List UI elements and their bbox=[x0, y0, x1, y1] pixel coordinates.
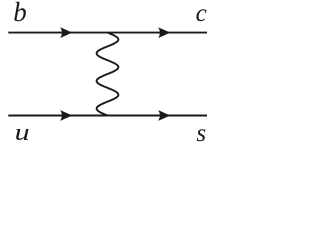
svg-text:b: b bbox=[13, 0, 27, 27]
svg-text:c: c bbox=[196, 0, 207, 27]
svg-text:u: u bbox=[15, 120, 30, 146]
svg-text:s: s bbox=[196, 120, 206, 147]
